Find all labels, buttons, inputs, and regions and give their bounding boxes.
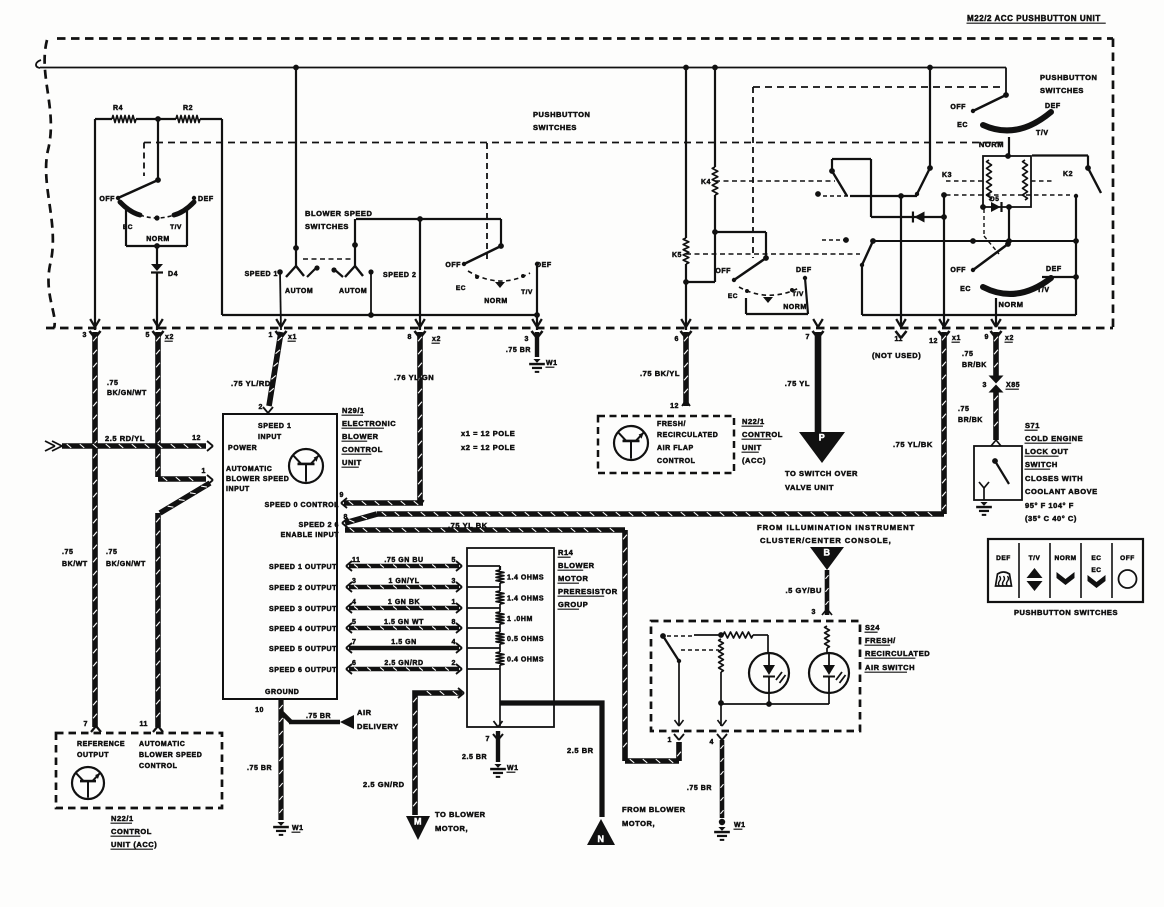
svg-text:AUTOM: AUTOM (339, 288, 367, 295)
svg-text:N29/1: N29/1 (342, 406, 365, 415)
svg-text:.75 YL/BK: .75 YL/BK (893, 440, 933, 449)
svg-text:SWITCH: SWITCH (1025, 460, 1058, 469)
svg-text:6: 6 (352, 660, 356, 667)
svg-text:.75: .75 (107, 380, 118, 387)
svg-text:PUSHBUTTON: PUSHBUTTON (533, 110, 590, 119)
svg-text:3: 3 (352, 578, 356, 585)
svg-text:.75 YL BK: .75 YL BK (448, 521, 488, 530)
svg-text:UNIT: UNIT (342, 458, 362, 467)
svg-text:EC: EC (1091, 555, 1101, 562)
svg-text:EC: EC (960, 286, 971, 293)
svg-text:BLOWER: BLOWER (342, 432, 379, 441)
svg-text:95° F 104° F: 95° F 104° F (1025, 501, 1074, 510)
svg-text:CONTROL: CONTROL (742, 430, 783, 439)
svg-text:ENABLE INPUT: ENABLE INPUT (281, 532, 339, 539)
svg-text:R14: R14 (558, 548, 574, 557)
svg-text:2.5 BR: 2.5 BR (462, 754, 487, 761)
svg-text:D5: D5 (990, 196, 999, 203)
svg-text:.75: .75 (62, 549, 73, 556)
svg-text:SWITCHES: SWITCHES (533, 123, 577, 132)
svg-text:9: 9 (340, 492, 344, 499)
svg-text:S24: S24 (865, 623, 880, 632)
svg-text:2.5 GN/RD: 2.5 GN/RD (363, 780, 405, 789)
svg-text:DEF: DEF (796, 267, 812, 274)
svg-text:1.5 GN WT: 1.5 GN WT (384, 619, 424, 626)
svg-text:NORM: NORM (979, 140, 1004, 149)
svg-text:UNIT (ACC): UNIT (ACC) (111, 840, 157, 849)
svg-text:BLOWER: BLOWER (558, 561, 595, 570)
svg-text:EC: EC (957, 122, 968, 129)
svg-text:.75 BK/YL: .75 BK/YL (640, 369, 680, 378)
svg-text:5: 5 (352, 619, 356, 626)
svg-text:EC: EC (123, 224, 133, 231)
svg-text:1: 1 (668, 737, 672, 744)
svg-text:0.5 OHMS: 0.5 OHMS (507, 636, 544, 643)
svg-text:T/V: T/V (792, 291, 804, 298)
svg-text:.75: .75 (958, 406, 969, 413)
svg-text:BK/GN/WT: BK/GN/WT (107, 390, 147, 397)
svg-text:K2: K2 (1063, 171, 1073, 178)
svg-text:DEF: DEF (1045, 103, 1061, 110)
svg-text:.75 BR: .75 BR (247, 765, 272, 772)
svg-text:x2 = 12 POLE: x2 = 12 POLE (461, 443, 515, 452)
svg-text:12: 12 (192, 435, 201, 442)
svg-text:.76 YL/GN: .76 YL/GN (394, 373, 434, 382)
svg-text:PRERESISTOR: PRERESISTOR (558, 587, 618, 596)
svg-text:5: 5 (452, 557, 456, 564)
svg-text:1: 1 (269, 332, 273, 339)
svg-text:BLOWER SPEED: BLOWER SPEED (139, 752, 202, 759)
svg-text:2: 2 (259, 404, 263, 411)
svg-text:8: 8 (344, 514, 348, 521)
svg-text:1.4 OHMS: 1.4 OHMS (507, 575, 544, 582)
svg-text:CLUSTER/CENTER CONSOLE,: CLUSTER/CENTER CONSOLE, (760, 536, 892, 545)
svg-text:SPEED 4 OUTPUT: SPEED 4 OUTPUT (269, 626, 337, 633)
svg-text:B: B (823, 548, 830, 558)
svg-text:W1: W1 (292, 825, 304, 832)
svg-text:4: 4 (452, 639, 456, 646)
svg-text:7: 7 (84, 721, 88, 728)
svg-text:.75: .75 (962, 351, 973, 358)
svg-text:x2: x2 (432, 336, 441, 343)
svg-text:T/V: T/V (521, 289, 533, 296)
svg-text:AUTOMATIC: AUTOMATIC (139, 741, 185, 748)
svg-text:R4: R4 (113, 105, 123, 112)
svg-text:AIR SWITCH: AIR SWITCH (865, 663, 915, 672)
svg-text:AIR: AIR (357, 708, 372, 717)
svg-text:POWER: POWER (228, 445, 257, 452)
svg-text:1 GN/YL: 1 GN/YL (388, 578, 419, 585)
svg-text:.75 YL/RD: .75 YL/RD (231, 379, 271, 388)
svg-text:CONTROL: CONTROL (657, 458, 696, 465)
svg-text:EC: EC (456, 285, 466, 292)
svg-text:3: 3 (525, 336, 529, 343)
svg-text:(ACC): (ACC) (742, 456, 766, 465)
svg-text:N22/1: N22/1 (742, 417, 765, 426)
svg-text:3: 3 (812, 609, 816, 616)
svg-text:P: P (819, 433, 826, 443)
svg-text:SPEED 1: SPEED 1 (258, 423, 291, 430)
svg-text:2: 2 (452, 660, 456, 667)
svg-text:OFF: OFF (950, 104, 966, 111)
svg-text:PUSHBUTTON: PUSHBUTTON (1040, 73, 1097, 82)
svg-text:W1: W1 (507, 765, 519, 772)
svg-text:T/V: T/V (1036, 130, 1049, 137)
svg-text:x1: x1 (952, 335, 961, 342)
svg-text:RECIRCULATED: RECIRCULATED (865, 649, 930, 658)
svg-text:COLD ENGINE: COLD ENGINE (1025, 434, 1083, 443)
svg-text:NORM: NORM (783, 304, 807, 311)
svg-text:SPEED 2: SPEED 2 (383, 272, 416, 279)
svg-text:0.4 OHMS: 0.4 OHMS (507, 657, 544, 664)
svg-text:1 GN BK: 1 GN BK (388, 599, 420, 606)
svg-text:BLOWER SPEED: BLOWER SPEED (305, 209, 372, 218)
svg-text:AIR FLAP: AIR FLAP (657, 445, 694, 452)
svg-text:OFF: OFF (99, 196, 115, 203)
svg-text:.75 GN BU: .75 GN BU (384, 557, 423, 564)
svg-text:VALVE UNIT: VALVE UNIT (785, 483, 834, 492)
svg-text:6: 6 (675, 336, 679, 343)
svg-text:SPEED 2 OUTPUT: SPEED 2 OUTPUT (269, 585, 337, 592)
svg-text:8: 8 (408, 334, 412, 341)
svg-text:x1 = 12 POLE: x1 = 12 POLE (461, 429, 515, 438)
svg-text:N22/1: N22/1 (111, 814, 134, 823)
svg-text:W1: W1 (546, 360, 558, 367)
svg-text:FROM BLOWER: FROM BLOWER (622, 805, 686, 814)
svg-text:7: 7 (352, 639, 356, 646)
svg-text:NORM: NORM (146, 236, 170, 243)
svg-text:TO SWITCH OVER: TO SWITCH OVER (785, 469, 858, 478)
svg-text:DELIVERY: DELIVERY (357, 722, 399, 731)
svg-text:W1: W1 (734, 822, 746, 829)
svg-text:1 .0HM: 1 .0HM (507, 616, 533, 623)
svg-text:ELECTRONIC: ELECTRONIC (342, 419, 396, 428)
svg-text:BK/GN/WT: BK/GN/WT (106, 561, 146, 568)
svg-text:CONTROL: CONTROL (111, 827, 152, 836)
svg-text:SPEED 5 OUTPUT: SPEED 5 OUTPUT (269, 646, 337, 653)
svg-text:MOTOR: MOTOR (558, 574, 589, 583)
svg-text:x2: x2 (1005, 335, 1014, 342)
svg-text:7: 7 (486, 736, 490, 743)
svg-text:NORM: NORM (484, 298, 508, 305)
svg-text:OFF: OFF (445, 262, 461, 269)
svg-text:AUTOM: AUTOM (285, 288, 313, 295)
svg-text:3: 3 (983, 382, 987, 389)
svg-text:NORM: NORM (1054, 555, 1076, 562)
svg-text:SWITCHES: SWITCHES (305, 222, 349, 231)
svg-text:SPEED 2 6: SPEED 2 6 (299, 522, 339, 529)
svg-text:COOLANT ABOVE: COOLANT ABOVE (1025, 487, 1098, 496)
svg-text:BLOWER SPEED: BLOWER SPEED (226, 476, 289, 483)
svg-text:.75 BR: .75 BR (306, 713, 331, 720)
svg-text:12: 12 (929, 338, 938, 345)
svg-text:MOTOR,: MOTOR, (435, 824, 468, 833)
svg-text:RECIRCULATED: RECIRCULATED (657, 432, 718, 439)
svg-text:x1: x1 (288, 334, 297, 341)
svg-text:12: 12 (670, 403, 679, 410)
svg-text:SWITCHES: SWITCHES (1040, 86, 1084, 95)
svg-text:BR/BK: BR/BK (962, 362, 987, 369)
svg-text:T/V: T/V (170, 224, 182, 231)
svg-text:10: 10 (255, 707, 264, 714)
svg-text:FRESH/: FRESH/ (865, 636, 896, 645)
svg-text:CLOSES WITH: CLOSES WITH (1025, 474, 1083, 483)
svg-text:INPUT: INPUT (258, 434, 282, 441)
svg-text:11: 11 (352, 557, 361, 564)
svg-text:3: 3 (452, 578, 456, 585)
svg-text:FRESH/: FRESH/ (657, 421, 686, 428)
svg-text:FROM ILLUMINATION INSTRUMENT: FROM ILLUMINATION INSTRUMENT (757, 523, 915, 532)
svg-text:CONTROL: CONTROL (139, 763, 178, 770)
svg-text:GROUND: GROUND (265, 689, 299, 696)
svg-text:5: 5 (146, 332, 150, 339)
svg-text:DEF: DEF (198, 196, 214, 203)
svg-text:SPEED 3 OUTPUT: SPEED 3 OUTPUT (269, 606, 337, 613)
svg-text:SPEED 1 OUTPUT: SPEED 1 OUTPUT (269, 564, 337, 571)
svg-text:M: M (414, 817, 422, 827)
svg-text:D4: D4 (168, 271, 178, 278)
svg-text:OFF: OFF (715, 268, 731, 275)
svg-text:PUSHBUTTON SWITCHES: PUSHBUTTON SWITCHES (1014, 608, 1118, 617)
svg-text:SPEED 1: SPEED 1 (245, 271, 278, 278)
svg-text:1.5 GN: 1.5 GN (391, 639, 416, 646)
svg-text:11: 11 (140, 721, 149, 728)
svg-text:MOTOR,: MOTOR, (622, 819, 655, 828)
svg-text:DEF: DEF (1046, 266, 1062, 273)
svg-text:.75 BR: .75 BR (506, 347, 531, 354)
svg-text:11: 11 (895, 336, 904, 343)
svg-text:3: 3 (83, 332, 87, 339)
svg-text:AUTOMATIC: AUTOMATIC (226, 466, 272, 473)
svg-text:SPEED 0 CONTROL: SPEED 0 CONTROL (265, 502, 340, 509)
svg-text:R2: R2 (183, 105, 193, 112)
svg-text:CONTROL: CONTROL (342, 445, 383, 454)
svg-text:2.5 GN/RD: 2.5 GN/RD (384, 660, 423, 667)
svg-text:S71: S71 (1025, 421, 1040, 430)
svg-text:9: 9 (985, 334, 989, 341)
svg-text:N: N (597, 834, 604, 844)
svg-text:OUTPUT: OUTPUT (77, 752, 109, 759)
svg-text:(NOT USED): (NOT USED) (872, 351, 921, 360)
svg-text:x2: x2 (165, 334, 174, 341)
svg-text:.5 GY/BU: .5 GY/BU (786, 586, 823, 595)
svg-text:SPEED 6 OUTPUT: SPEED 6 OUTPUT (269, 667, 337, 674)
svg-text:1.4 OHMS: 1.4 OHMS (507, 596, 544, 603)
svg-text:(35° C 40° C): (35° C 40° C) (1025, 514, 1077, 523)
svg-text:UNIT: UNIT (742, 443, 762, 452)
svg-text:.75 YL: .75 YL (785, 379, 810, 388)
svg-text:GROUP: GROUP (558, 600, 588, 609)
svg-text:BK/WT: BK/WT (62, 561, 88, 568)
svg-text:2.5 BR: 2.5 BR (567, 746, 594, 755)
svg-text:EC: EC (1091, 567, 1101, 574)
svg-text:DEF: DEF (996, 555, 1011, 562)
svg-text:K4: K4 (701, 179, 711, 186)
svg-text:.75: .75 (106, 549, 117, 556)
svg-text:7: 7 (806, 334, 810, 341)
svg-text:NORM: NORM (998, 300, 1023, 309)
svg-text:EC: EC (728, 293, 738, 300)
svg-text:4: 4 (352, 599, 356, 606)
svg-text:K5: K5 (672, 252, 682, 259)
svg-text:K3: K3 (942, 172, 952, 179)
svg-text:2.5 RD/YL: 2.5 RD/YL (105, 434, 145, 443)
svg-text:TO BLOWER: TO BLOWER (435, 810, 486, 819)
svg-text:T/V: T/V (1029, 555, 1041, 562)
svg-text:X85: X85 (1006, 382, 1020, 389)
svg-text:8: 8 (452, 619, 456, 626)
svg-text:.75 BR: .75 BR (687, 785, 712, 792)
svg-text:OFF: OFF (950, 267, 966, 274)
svg-text:OFF: OFF (1120, 555, 1135, 562)
svg-text:M22/2 ACC PUSHBUTTON UNIT: M22/2 ACC PUSHBUTTON UNIT (967, 14, 1101, 23)
svg-text:REFERENCE: REFERENCE (77, 741, 125, 748)
svg-text:BR/BK: BR/BK (958, 417, 983, 424)
svg-text:1: 1 (202, 468, 206, 475)
svg-text:1: 1 (452, 599, 456, 606)
svg-text:INPUT: INPUT (226, 486, 250, 493)
svg-text:4: 4 (710, 739, 714, 746)
svg-text:LOCK OUT: LOCK OUT (1025, 447, 1069, 456)
